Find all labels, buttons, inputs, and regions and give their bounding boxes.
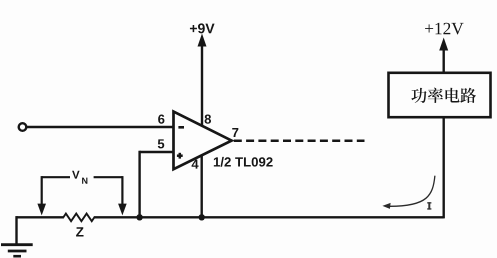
wire power box down to bottom rail [443,117,445,218]
resistor Z [63,214,94,222]
op-amp U1 (1/2 TL092) [174,112,232,170]
power circuit box [389,73,491,117]
+9V supply label [190,23,215,33]
input terminal (open circle) [19,123,27,131]
VN measurement bracket [42,176,123,205]
op-amp inverting input marker [178,126,184,129]
wire bottom rail right of resistor [94,216,444,218]
wire bottom rail left of resistor [17,216,64,218]
pin 7 label [232,128,238,137]
+12V supply label [425,23,463,35]
VN right arrowhead [118,204,127,216]
current arrowhead [382,203,390,209]
VN label V [72,171,80,179]
node B junction dot [199,214,205,220]
+9V arrowhead [198,34,207,47]
op-amp value label 1/2 TL092 [214,157,273,167]
current direction curved arrow [389,176,435,207]
+12V arrowhead [439,38,448,51]
resistor value label Z [76,227,83,236]
pin 8 label [205,115,211,124]
node A junction dot [136,214,142,220]
wire +12V arrow stem [443,48,445,73]
op-amp non-inverting input marker [177,153,183,159]
pin 6 label [158,115,164,124]
ground [1,245,33,257]
wire pin 5 branch down to node A [138,151,140,218]
wire pin 8 up to +9V arrow [201,44,203,126]
dashed output wire from pin 7 [234,140,365,143]
current label I [427,202,431,209]
wire op-amp pin 5 horizontal [140,151,174,153]
pin 5 label [158,139,164,148]
wire pin 4 down to node B [200,155,202,217]
power circuit box label 功率电路 (glyph outlines) [411,88,476,103]
pin 4 label [192,160,199,169]
VN left arrowhead [37,204,46,216]
wire left drop to ground [15,216,17,244]
VN label subscript N [82,178,87,184]
wire input to op-amp pin 6 [27,126,174,128]
